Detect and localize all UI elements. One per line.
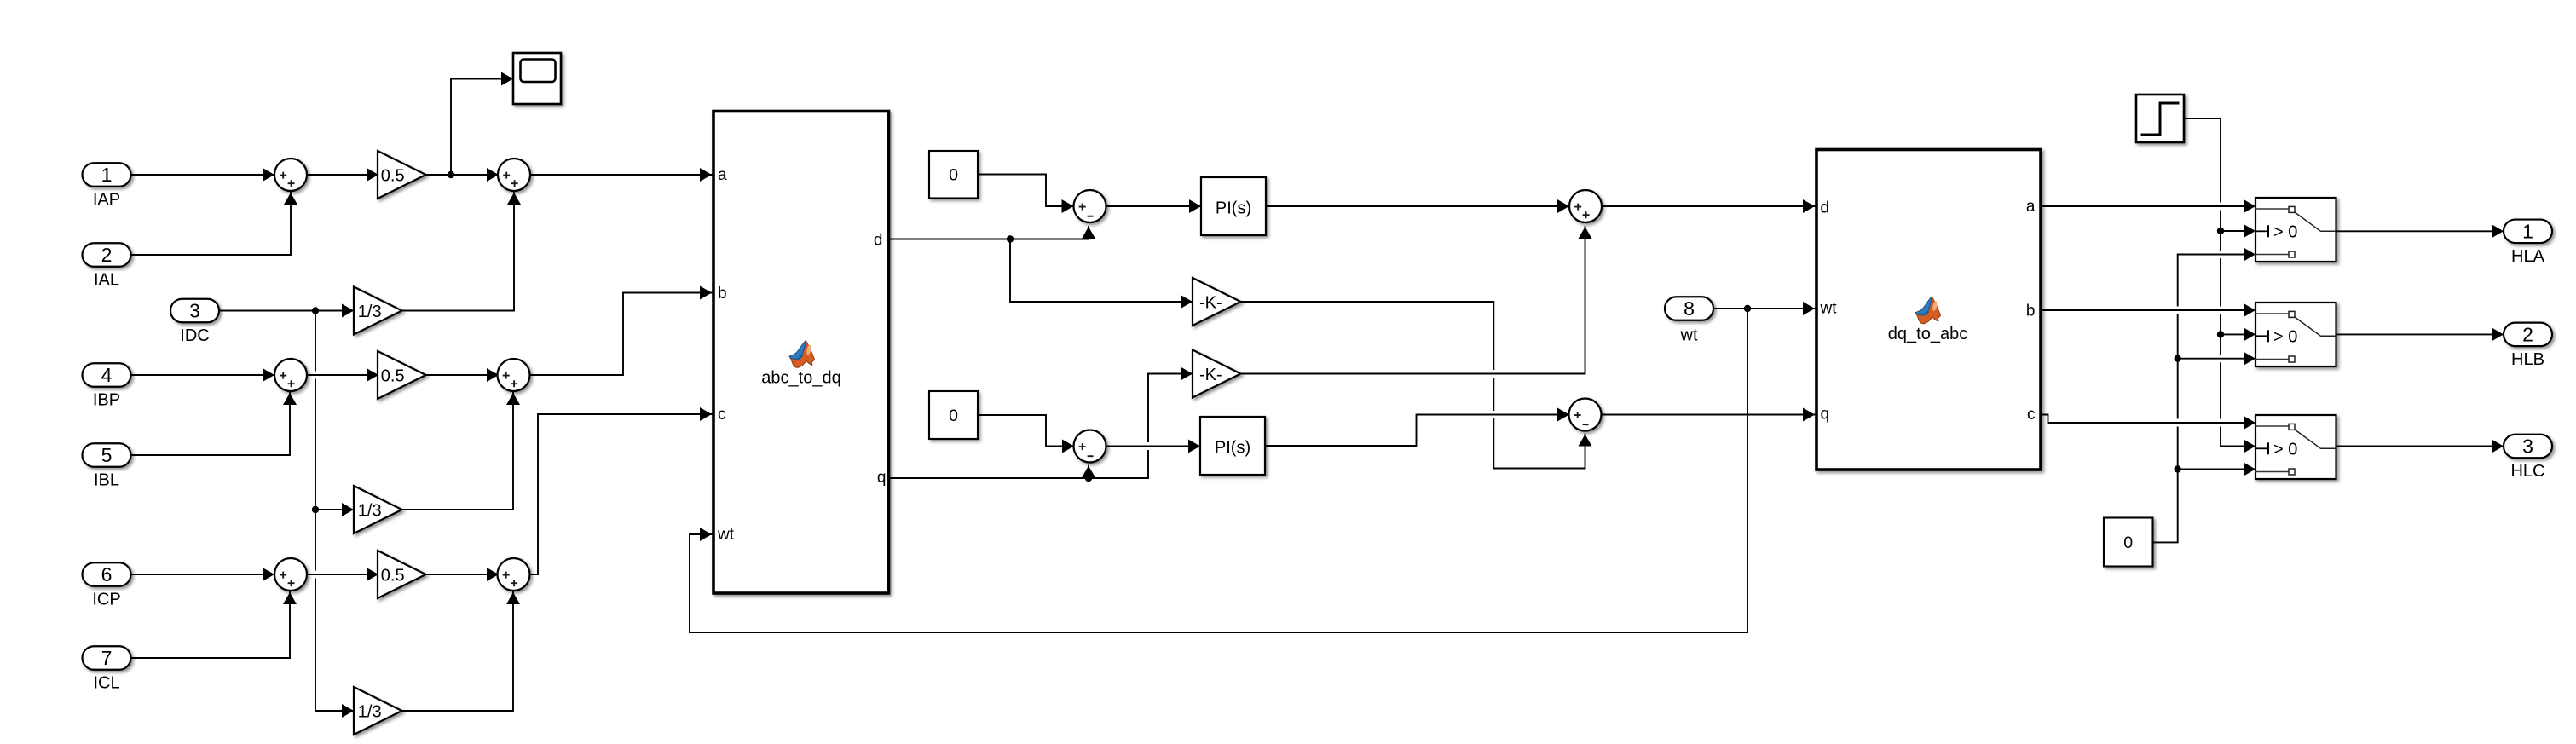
sum S2 (phase a total) — [498, 159, 530, 191]
wire Sum4 to abc_to_dq input b — [529, 293, 712, 376]
arrowhead into Switch3 control — [2244, 440, 2255, 453]
arrowhead into K2 — [1181, 367, 1193, 381]
gain G2 1/3 — [354, 287, 402, 335]
arrowhead into Sum5 — [263, 568, 274, 581]
wire dq_to_abc output b to Switch2 — [2043, 309, 2245, 311]
arrowhead into HLC — [2492, 440, 2504, 453]
switch SW2 (criteria >0) internal: selector lever to output — [2295, 317, 2336, 336]
wire wt feedback to abc_to_dq input wt — [690, 309, 1747, 632]
svg-text:6: 6 — [101, 563, 113, 585]
wire abc_to_dq output q — [889, 477, 1149, 479]
arrowhead into abc_to_dq b — [700, 286, 712, 300]
arrowhead into Sum6 bottom — [506, 592, 520, 604]
inport 7 ICL — [83, 646, 131, 670]
switch SW1 (criteria >0) internal: lower throw line + port square — [2255, 254, 2289, 256]
inport 6 ICP — [83, 562, 131, 586]
svg-text:PI(s): PI(s) — [1215, 438, 1250, 457]
arrowhead into Sum5 bottom — [283, 592, 297, 604]
wire IDC port3 to Gain 1/3 G2 — [219, 310, 354, 312]
arrowhead into Sum2 bottom — [507, 193, 521, 205]
constant C2 value 0 — [929, 391, 978, 439]
arrowhead into G3 — [367, 368, 378, 382]
arrowhead into PID2 — [1188, 440, 1200, 453]
wire IBP port4 to Sum3 — [130, 374, 274, 376]
arrowhead into Sum7 bottom — [1082, 227, 1095, 239]
wire q tap to Sum8 bottom — [1088, 466, 1089, 479]
svg-text:-K-: -K- — [1199, 293, 1222, 312]
junction step control at Switch2 — [2217, 331, 2224, 337]
wire wt port8 to dq_to_abc input wt — [1714, 308, 1816, 309]
switch SW1 (criteria >0) — [2255, 198, 2336, 262]
wire Sum8 to PI(s) PID2 — [1106, 446, 1201, 447]
svg-text:2: 2 — [2522, 323, 2533, 345]
arrowhead into dq_to_abc q — [1803, 408, 1815, 422]
svg-text:q: q — [877, 469, 887, 487]
junction q tap at Sum8 — [1085, 475, 1092, 482]
sum S10 (q command) — [1569, 399, 1602, 431]
svg-text:d: d — [1821, 199, 1830, 217]
arrowhead into HLB — [2492, 327, 2504, 341]
svg-text:1/3: 1/3 — [358, 702, 382, 721]
svg-text:1: 1 — [101, 164, 113, 186]
switch SW1 (criteria >0) internal: selector lever to output — [2295, 212, 2336, 231]
sum S9 (d command) — [1569, 190, 1602, 222]
sum S1 (IAP+IAL) — [274, 159, 307, 191]
arrowhead into Switch1 lower — [2244, 248, 2255, 262]
junction row1 tap to scope — [448, 171, 454, 178]
wire C3 to Switch2 lower input — [2178, 358, 2244, 360]
arrowhead into Switch3 upper — [2244, 416, 2255, 430]
svg-text:q: q — [1821, 406, 1830, 424]
wire Constant C3 vertical — [2177, 255, 2179, 543]
inport 4 IBP — [83, 363, 131, 387]
junction C3 at Switch3 — [2175, 465, 2181, 472]
outport 3 HLC — [2504, 435, 2552, 459]
arrowhead into abc_to_dq wt — [700, 528, 712, 541]
arrowhead into G1 — [367, 168, 378, 182]
inport 1 IAP — [83, 163, 131, 187]
arrowhead into Sum7 — [1062, 199, 1074, 213]
switch SW2 (criteria >0) internal: control stub, threshold bar, criteria text — [2255, 335, 2268, 337]
svg-text:8: 8 — [1684, 297, 1695, 320]
switch SW1 (criteria >0) internal: control stub, threshold bar, criteria text — [2255, 230, 2268, 232]
svg-text:0: 0 — [2123, 533, 2133, 552]
arrowhead into Sum8 — [1062, 440, 1074, 453]
abc_to_dq MATLAB logo — [789, 341, 814, 367]
MATLAB function block abc_to_dq — [713, 112, 889, 594]
svg-text:0: 0 — [949, 407, 958, 425]
arrowhead into K1 — [1181, 295, 1193, 309]
switch SW1 (criteria >0) internal: upper throw line + port square — [2255, 208, 2289, 210]
MATLAB function block dq_to_abc — [1816, 150, 2041, 470]
svg-text:a: a — [718, 166, 727, 184]
svg-text:1/3: 1/3 — [358, 303, 382, 321]
svg-text:IAL: IAL — [94, 271, 119, 290]
svg-text:0: 0 — [949, 166, 958, 185]
arrowhead into Switch2 control — [2244, 327, 2255, 341]
svg-text:dq_to_abc: dq_to_abc — [1888, 325, 1967, 343]
wire IAP port1 to Sum1 — [130, 174, 274, 176]
arrowhead into Sum6 — [487, 568, 499, 581]
arrowhead into G6 — [342, 704, 354, 718]
sum S5 (ICP+ICL) — [274, 558, 307, 591]
wire G6 output to Sum6 bottom — [401, 592, 514, 711]
svg-text:IDC: IDC — [180, 326, 209, 345]
svg-text:2: 2 — [101, 244, 113, 266]
arrowhead into Scope — [501, 72, 513, 86]
arrowhead into Sum2 — [487, 168, 499, 182]
svg-text:3: 3 — [189, 300, 200, 322]
sum S3 (IBP+IBL) — [274, 359, 307, 391]
sum S6 (phase c total) — [498, 558, 530, 591]
svg-text:ICP: ICP — [92, 591, 120, 609]
svg-text:wt: wt — [1820, 300, 1838, 318]
PID controller PID2 — [1200, 417, 1265, 475]
wire Step output — [2184, 118, 2221, 119]
wire junction to Gain 1/3 G4 — [315, 509, 354, 510]
inport 3 IDC — [170, 299, 219, 323]
gain G1 0.5 — [378, 151, 426, 199]
svg-text:7: 7 — [101, 647, 113, 669]
wire Sum9 to dq_to_abc input d — [1602, 205, 1816, 207]
arrowhead into G5 — [367, 568, 378, 581]
svg-text:c: c — [718, 406, 726, 424]
wire Switch2 to outport HLB — [2336, 333, 2504, 335]
gain G4 1/3 — [354, 486, 402, 533]
wire Switch3 to outport HLC — [2336, 446, 2504, 447]
svg-text:IBL: IBL — [94, 471, 119, 490]
arrowhead into HLA — [2492, 224, 2504, 238]
wire Constant C1 to Sum7 — [978, 175, 1074, 207]
step source block — [2136, 95, 2184, 142]
arrowhead into G4 — [342, 503, 354, 516]
wire q tap vertical to -K- K2 — [1147, 374, 1149, 479]
arrowhead into dq_to_abc wt — [1803, 302, 1815, 315]
arrowhead into Sum3 bottom — [283, 393, 297, 405]
switch SW3 (criteria >0) internal: lower throw line + port square — [2255, 471, 2289, 473]
switch SW3 (criteria >0) internal: upper throw line + port square — [2255, 425, 2289, 427]
constant C1 value 0 — [929, 151, 978, 199]
wire Constant C2 to Sum8 — [978, 415, 1074, 447]
wire C3 to Switch1 lower input — [2178, 254, 2244, 256]
svg-text:1: 1 — [2522, 220, 2533, 242]
wire C3 to Switch3 lower input — [2178, 469, 2244, 470]
gain K1 -K- — [1193, 278, 1241, 326]
wire tap up to Scope — [451, 79, 501, 176]
arrowhead into Sum1 bottom — [284, 193, 297, 205]
wire G5 to Sum6 — [426, 574, 499, 575]
arrowhead into abc_to_dq c — [700, 407, 712, 421]
svg-text:> 0: > 0 — [2273, 328, 2297, 347]
svg-text:PI(s): PI(s) — [1216, 199, 1251, 217]
svg-text:ICL: ICL — [93, 674, 119, 693]
wire Sum10 to dq_to_abc input q — [1602, 414, 1816, 416]
wire ICL port7 to Sum5 bottom — [130, 592, 290, 658]
arrowhead into Sum10 bottom — [1579, 435, 1592, 447]
arrowhead into PID1 — [1189, 199, 1201, 213]
arrowhead into Sum9 bottom — [1579, 227, 1592, 239]
inport 5 IBL — [83, 443, 131, 467]
switch SW2 (criteria >0) internal: upper throw line + port square — [2255, 313, 2289, 314]
arrowhead into Switch1 control — [2244, 224, 2255, 238]
sum S7 (d error) — [1074, 190, 1106, 222]
wire IBL port5 to Sum3 bottom — [130, 393, 290, 455]
svg-text:b: b — [718, 285, 727, 303]
wire Step to Switch1 control input — [2221, 230, 2244, 232]
gain G6 1/3 — [354, 687, 402, 735]
wire Step to Switch3 control input — [2221, 446, 2244, 447]
junction IDC tap — [312, 307, 319, 314]
wire Switch1 to outport HLA — [2336, 230, 2504, 232]
junction IDC tap at G4 — [312, 506, 319, 513]
junction step control at Switch1 — [2217, 228, 2224, 234]
svg-text:5: 5 — [101, 444, 113, 466]
arrowhead into dq_to_abc d — [1803, 199, 1815, 213]
arrowhead into abc_to_dq a — [700, 168, 712, 182]
svg-text:1/3: 1/3 — [358, 501, 382, 520]
sum S4 (phase b total) — [498, 359, 530, 391]
switch SW2 (criteria >0) — [2255, 303, 2336, 366]
wire Sum3 to Gain G3 — [307, 374, 378, 376]
arrowhead into Sum4 bottom — [506, 393, 520, 405]
wire d tap to Gain -K- K1 — [1010, 301, 1193, 303]
wire Sum5 to Gain G5 — [307, 574, 378, 575]
svg-text:abc_to_dq: abc_to_dq — [761, 369, 840, 388]
wire G1 to Sum2 — [426, 174, 499, 176]
arrowhead into Switch1 upper — [2244, 199, 2255, 213]
wire dq_to_abc output a to Switch1 — [2043, 205, 2245, 207]
junction d tap — [1007, 235, 1014, 242]
svg-text:4: 4 — [101, 364, 113, 386]
svg-text:0.5: 0.5 — [381, 166, 405, 185]
wire Sum1 to Gain G1 — [307, 174, 378, 176]
svg-text:c: c — [2027, 406, 2036, 424]
svg-text:wt: wt — [1680, 326, 1698, 345]
arrowhead into Switch2 lower — [2244, 352, 2255, 366]
arrowhead into Sum8 bottom — [1082, 466, 1095, 478]
step icon — [2141, 103, 2180, 135]
svg-text:a: a — [2026, 198, 2036, 216]
wire IDC tap vertical (junction x370 down to 1/3 gains) — [315, 311, 316, 712]
dq_to_abc MATLAB logo — [1915, 297, 1940, 323]
wire Step to Switch2 control input — [2221, 333, 2244, 335]
scope block — [513, 53, 561, 104]
svg-text:0.5: 0.5 — [381, 366, 405, 385]
switch SW3 (criteria >0) internal: selector lever to output — [2295, 430, 2336, 448]
svg-text:HLB: HLB — [2511, 350, 2544, 369]
wire dq_to_abc output c to Switch3 — [2043, 415, 2245, 424]
svg-text:IAP: IAP — [93, 191, 120, 210]
wire Sum7 to PI(s) PID1 — [1106, 205, 1202, 207]
wire Sum2 to abc_to_dq input a — [530, 174, 712, 176]
scope screen — [521, 60, 556, 83]
switch SW3 (criteria >0) — [2255, 415, 2336, 479]
wire IAL port2 to Sum1 bottom — [130, 193, 291, 255]
junction wt tap — [1744, 305, 1751, 312]
outport 2 HLB — [2504, 323, 2552, 347]
wire K1 route vertical down — [1493, 302, 1494, 469]
wire Step control vertical — [2220, 118, 2221, 447]
svg-text:b: b — [2026, 303, 2036, 320]
wire d tap vertical to -K- K1 — [1009, 239, 1011, 303]
wire vertical tap to Gain 1/3 G6 — [315, 710, 354, 712]
arrowhead into G2 — [342, 304, 354, 318]
wire abc_to_dq output d to Sum7 bottom — [889, 227, 1089, 239]
junction C3 at Switch2 — [2175, 355, 2181, 362]
svg-text:> 0: > 0 — [2273, 441, 2297, 459]
svg-text:HLC: HLC — [2510, 462, 2544, 481]
wire Sum6 to abc_to_dq input c — [529, 414, 712, 574]
outport 1 HLA — [2504, 220, 2552, 244]
arrowhead into Sum3 — [263, 368, 274, 382]
svg-text:d: d — [874, 232, 883, 250]
wire G3 to Sum4 — [426, 374, 499, 376]
gain G5 0.5 — [378, 551, 426, 598]
wire ICP port6 to Sum5 — [130, 574, 274, 575]
svg-text:0.5: 0.5 — [381, 566, 405, 585]
switch SW3 (criteria >0) internal: control stub, threshold bar, criteria text — [2255, 447, 2268, 449]
wire G4 output to Sum4 bottom — [401, 393, 514, 510]
inport 2 IAL — [83, 243, 131, 267]
wire K1 output — [1241, 301, 1494, 303]
wire K2 output to Sum9 bottom — [1241, 227, 1585, 374]
wire Constant C3 output — [2153, 541, 2178, 543]
svg-text:-K-: -K- — [1199, 366, 1222, 384]
arrowhead into Switch2 upper — [2244, 303, 2255, 317]
wire PID2 to Sum10 — [1265, 415, 1569, 447]
arrowhead into Sum4 — [487, 368, 499, 382]
arrowhead into Sum10 — [1557, 408, 1569, 422]
constant C3 value 0 — [2104, 518, 2153, 567]
svg-text:wt: wt — [717, 526, 735, 544]
arrowhead into Sum1 — [263, 168, 274, 182]
gain G3 0.5 — [378, 351, 426, 399]
wire K1 route to Sum10 bottom — [1493, 435, 1585, 469]
wire G2 output to Sum2 bottom — [401, 193, 515, 311]
arrowhead into Switch3 lower — [2244, 463, 2255, 476]
inport 8 wt — [1665, 297, 1713, 320]
arrowhead into Sum9 — [1557, 199, 1569, 213]
sum S8 (q error) — [1074, 430, 1106, 463]
wire q tap to Gain -K- K2 — [1148, 373, 1193, 375]
svg-text:IBP: IBP — [93, 391, 120, 410]
svg-text:3: 3 — [2522, 435, 2533, 458]
switch SW2 (criteria >0) internal: lower throw line + port square — [2255, 359, 2289, 360]
svg-text:> 0: > 0 — [2273, 223, 2297, 242]
PID controller PID1 — [1201, 177, 1266, 235]
gain K2 -K- — [1193, 350, 1241, 398]
svg-text:HLA: HLA — [2511, 247, 2545, 266]
wire PID1 to Sum9 — [1266, 205, 1569, 207]
